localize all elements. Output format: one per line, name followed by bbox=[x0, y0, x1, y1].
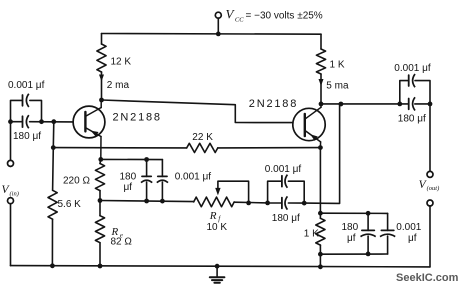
ground symbol bbox=[210, 266, 225, 283]
junction bypass cap1 bottom bbox=[366, 252, 371, 257]
junction Q1 emitter node bbox=[98, 157, 103, 162]
label mid 0.001 uf bbox=[265, 164, 302, 175]
watermark SeekIC.com bbox=[396, 272, 459, 284]
terminal Vin upper bbox=[8, 160, 14, 166]
wire input node to base bbox=[30, 121, 74, 123]
junction input node left bbox=[8, 119, 13, 124]
wire output bypass loop bbox=[400, 81, 430, 104]
svg-text:0.001 μf: 0.001 μf bbox=[265, 164, 302, 175]
wire input bypass loop bbox=[11, 100, 42, 121]
wire bottom node line bbox=[100, 201, 194, 202]
label 10 K bbox=[207, 222, 228, 233]
current arrow 2 ma bbox=[99, 75, 104, 82]
label 2 ma bbox=[107, 80, 130, 91]
capacitor emitter 180 uf bbox=[141, 176, 152, 182]
svg-text:2N2188: 2N2188 bbox=[249, 98, 298, 110]
junction cap1 top bbox=[144, 157, 149, 162]
label Q1 2N2188 bbox=[113, 111, 162, 123]
junction feedback tap bbox=[339, 102, 344, 107]
label 220 ohm bbox=[63, 175, 90, 186]
svg-text:10 K: 10 K bbox=[207, 222, 228, 233]
label emitter 0.001 uf bbox=[175, 172, 212, 183]
svg-text:2 ma: 2 ma bbox=[107, 80, 130, 91]
label input 0.001 uf bbox=[8, 80, 45, 91]
junction output loop right bbox=[428, 102, 433, 107]
transistor Q1 2N2188 bbox=[73, 100, 105, 159]
junction emitter bypass bottom bbox=[318, 252, 323, 257]
label Vcc value bbox=[226, 7, 323, 24]
wire bypass bottom line bbox=[320, 253, 387, 255]
junction Q1 collector node bbox=[99, 98, 104, 103]
transistor Q2 2N2188 bbox=[293, 104, 325, 148]
svg-text:0.001 μf: 0.001 μf bbox=[394, 63, 431, 74]
wire Vin upper riser bbox=[10, 122, 12, 167]
resistor R 12K bbox=[97, 44, 106, 72]
wire 1K top stub bbox=[320, 34, 322, 49]
label bypass 180 uf bbox=[342, 222, 359, 244]
junction 220-Re node bbox=[98, 198, 103, 203]
label emitter 180 uf bbox=[120, 172, 137, 194]
wire mid cap right stub bbox=[288, 202, 304, 204]
svg-text:180: 180 bbox=[120, 172, 137, 183]
wire base branch down bbox=[52, 122, 55, 148]
junction mid loop left bbox=[265, 201, 270, 206]
svg-text:SeekIC.com: SeekIC.com bbox=[396, 272, 459, 284]
resistor R 1K bottom bbox=[316, 213, 325, 245]
wire 5.6K top stub bbox=[52, 148, 55, 191]
wire 1K bottom to Q2 collector node bbox=[320, 74, 322, 104]
svg-text:22 K: 22 K bbox=[192, 132, 213, 143]
current arrow 5 ma bbox=[319, 79, 324, 86]
terminal Vcc bbox=[215, 12, 221, 18]
junction input loop right bbox=[39, 119, 44, 124]
wire 5.6K bottom stub bbox=[51, 219, 53, 266]
junction cap2 bottom bbox=[160, 199, 165, 204]
wire feedback riser bbox=[304, 104, 339, 203]
junction Vcc-rail bbox=[216, 32, 221, 37]
svg-text:5 ma: 5 ma bbox=[326, 80, 349, 91]
resistor R 1K top bbox=[316, 49, 325, 74]
junction bypass cap1 top bbox=[366, 211, 371, 216]
wire cap1 bottom stub bbox=[146, 182, 148, 201]
label Vout bbox=[419, 179, 440, 192]
resistor Re 82 ohm bbox=[95, 201, 104, 243]
svg-text:0.001: 0.001 bbox=[396, 222, 421, 233]
label input 180 uf bbox=[13, 131, 41, 142]
wire Q1 collector to Q2 base bbox=[102, 100, 293, 123]
label Vin bbox=[2, 184, 19, 197]
svg-text:μf: μf bbox=[408, 233, 417, 244]
junction 22K-5.6K node bbox=[51, 145, 56, 150]
junction 5.6K on ground rail bbox=[50, 263, 55, 268]
capacitor mid 180 uf bbox=[282, 196, 288, 209]
wire Q2 emitter column bbox=[319, 148, 321, 214]
label 1 K top bbox=[330, 60, 345, 71]
resistor R 5.6K bbox=[48, 190, 57, 219]
junction Q2 collector node bbox=[319, 102, 324, 107]
wire Re bottom stub bbox=[99, 243, 101, 266]
wire Rf to mid caps bbox=[234, 201, 267, 204]
svg-text:0.001 μf: 0.001 μf bbox=[175, 172, 212, 183]
label 1 K bottom bbox=[304, 228, 319, 239]
junction cap1 bottom bbox=[144, 199, 149, 204]
resistor R 220 ohm bbox=[95, 164, 104, 191]
wire mid cap left stub bbox=[270, 202, 281, 204]
svg-text:82 Ω: 82 Ω bbox=[111, 237, 133, 248]
wire cap2 bottom stub bbox=[161, 182, 163, 201]
svg-text:180 μf: 180 μf bbox=[272, 213, 300, 224]
wire mid loop bbox=[268, 181, 305, 203]
label 5 ma bbox=[326, 80, 349, 91]
junction Re on ground rail bbox=[98, 264, 103, 269]
wire bypass cap2 stubs bbox=[387, 213, 389, 254]
capacitor bypass 0.001 uf bbox=[380, 230, 395, 236]
label Rf bbox=[209, 210, 221, 223]
svg-text:R: R bbox=[209, 210, 217, 222]
svg-text:(out): (out) bbox=[427, 185, 440, 192]
capacitor mid 0.001 uf bbox=[282, 175, 288, 188]
wire bypass cap1 stubs bbox=[367, 213, 369, 254]
capacitor output 180 uf bbox=[409, 97, 415, 110]
wiper arrow Rf bbox=[215, 181, 248, 203]
junction ground tap bbox=[215, 264, 220, 269]
wire Vcc stub bbox=[217, 18, 219, 34]
svg-text:180 μf: 180 μf bbox=[398, 113, 426, 124]
svg-text:0.001 μf: 0.001 μf bbox=[8, 80, 45, 91]
wire Vin lower riser bbox=[10, 204, 12, 266]
wire Vout lower riser bbox=[429, 206, 431, 267]
wire 22K right segment bbox=[218, 147, 321, 149]
junction 1K on ground rail bbox=[318, 264, 323, 269]
wire cap1 top stub bbox=[146, 160, 148, 177]
svg-text:μf: μf bbox=[347, 233, 356, 244]
svg-text:1 K: 1 K bbox=[330, 60, 345, 71]
wire output node right stub bbox=[415, 103, 430, 105]
label 5.6 K bbox=[58, 199, 82, 210]
junction Rf wiper tie bbox=[246, 201, 251, 206]
label output 0.001 uf bbox=[394, 63, 431, 74]
capacitor emitter 0.001 uf bbox=[157, 176, 168, 182]
terminal Vin lower bbox=[8, 198, 14, 204]
wire top supply rail bbox=[102, 33, 322, 36]
capacitor output 0.001 uf bbox=[409, 74, 415, 87]
capacitor input 180 uf bbox=[23, 115, 29, 128]
svg-text:180 μf: 180 μf bbox=[13, 131, 41, 142]
svg-text:1 K: 1 K bbox=[304, 228, 319, 239]
capacitor input 0.001 uf bbox=[23, 94, 29, 107]
label output 180 uf bbox=[398, 113, 426, 124]
svg-text:= −30 volts ±25%: = −30 volts ±25% bbox=[246, 11, 323, 22]
label 82 ohm bbox=[111, 237, 133, 248]
svg-text:(in): (in) bbox=[10, 190, 19, 197]
wire 1K bottom stub bbox=[319, 245, 321, 267]
label bypass 0.001 uf bbox=[396, 222, 421, 244]
terminal Vout lower bbox=[427, 200, 433, 206]
label 12 K bbox=[111, 56, 132, 67]
svg-text:CC: CC bbox=[235, 16, 244, 23]
label Re bbox=[111, 226, 123, 239]
capacitor bypass 180 uf bbox=[361, 230, 376, 236]
junction emitter bypass top bbox=[318, 211, 323, 216]
junction base-divider node bbox=[51, 119, 56, 124]
resistor R 22K bbox=[187, 143, 218, 152]
wire 220 top stub bbox=[99, 159, 102, 163]
svg-text:180: 180 bbox=[342, 222, 359, 233]
resistor Rf 10K bbox=[194, 197, 235, 207]
svg-text:12 K: 12 K bbox=[111, 56, 132, 67]
wire 12K bottom to Q1 collector node bbox=[101, 72, 103, 100]
wire cap2 top corner bbox=[161, 160, 163, 177]
svg-text:220 Ω: 220 Ω bbox=[63, 175, 90, 186]
junction mid loop right bbox=[302, 201, 307, 206]
junction Q2 emitter-22K node bbox=[318, 145, 323, 150]
wire 12K top stub bbox=[101, 34, 103, 45]
label Q2 2N2188 bbox=[249, 98, 298, 110]
wire 22K left segment bbox=[53, 147, 186, 149]
label mid 180 uf bbox=[272, 213, 300, 224]
wire Vout upper riser bbox=[429, 104, 431, 172]
wire emitter node line bbox=[101, 158, 163, 160]
wire bypass top line bbox=[320, 212, 387, 214]
terminal Vout upper bbox=[427, 171, 433, 177]
label 22 K bbox=[192, 132, 213, 143]
svg-text:5.6 K: 5.6 K bbox=[58, 199, 82, 210]
junction output loop left bbox=[397, 102, 402, 107]
wire bottom ground rail bbox=[11, 266, 430, 267]
svg-text:2N2188: 2N2188 bbox=[113, 111, 162, 123]
wire 220 bottom stub bbox=[99, 191, 101, 201]
wire Vin to 180uf cap bbox=[11, 121, 22, 123]
wire output node line bbox=[321, 103, 408, 105]
svg-text:μf: μf bbox=[124, 182, 133, 193]
